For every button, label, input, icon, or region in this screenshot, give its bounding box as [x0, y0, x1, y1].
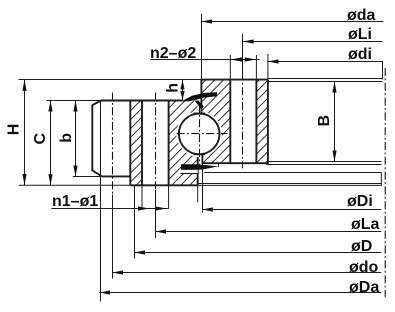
dimension line øLa [156, 231, 382, 233]
svg-text:H: H [6, 124, 23, 136]
inner ring bore surface with chamfers [92, 101, 102, 177]
svg-text:øDa: øDa [349, 279, 379, 296]
dimension line øD [135, 252, 382, 254]
extension line øLa [155, 190, 157, 238]
lower seal groove floor edge [181, 173, 198, 175]
extension line n2 hole left wall [229, 55, 231, 80]
inner ring bottom face extension to H and C dimensions [19, 184, 131, 186]
extension line øD [134, 185, 136, 258]
inner ring step face extension to b dimension [73, 176, 102, 178]
inner ring bottom face [130, 184, 197, 186]
dimension line ø1 with n1-ø1 label underline [51, 208, 168, 210]
svg-text:b: b [58, 133, 75, 143]
extension line øda [201, 14, 203, 80]
svg-text:øDi: øDi [347, 193, 373, 210]
svg-text:ødo: ødo [349, 259, 379, 276]
extension line inner ring outer wall [197, 185, 199, 202]
inner ring top face [101, 100, 183, 102]
outer ring bore edge below ball [201, 153, 203, 163]
dimension line øDi [202, 209, 381, 211]
inner ring top face extension to C and b dimensions [46, 100, 101, 102]
dimension line øLi [243, 41, 382, 43]
extension line ødi [267, 54, 269, 80]
arrowhead ø1 left [138, 206, 149, 210]
bolt hole n1 left wall [141, 101, 143, 186]
bolt hole n1 right wall [168, 101, 170, 186]
arrowhead n2-ø2 right [245, 57, 257, 61]
dimension line C [50, 101, 52, 186]
extension line ø1 left wall [141, 185, 143, 208]
arrowhead C top [48, 101, 52, 112]
outer ring section hatch, raceway block right of ball [201, 80, 230, 163]
outer ring top face [201, 79, 268, 81]
raceway edge tick above ball [194, 112, 206, 114]
svg-text:øD: øD [351, 238, 372, 255]
extension line øDa through inner ring [100, 101, 102, 302]
arrowhead B bottom [332, 151, 336, 162]
arrowhead b bottom [73, 166, 77, 177]
ball vertical centerline [199, 105, 201, 165]
outer ring bore edge above ball [200, 80, 202, 115]
dimension line B [334, 82, 336, 162]
arrowhead h bottom [180, 91, 184, 100]
svg-text:øLi: øLi [348, 26, 372, 43]
dimension line b [75, 101, 77, 177]
extension line øLi [242, 34, 244, 73]
outer ring section hatch, rim right of bolt hole n2 [256, 80, 268, 164]
ball (rolling element) [179, 114, 220, 155]
bottom face edge extension right lower [268, 164, 382, 166]
bearing axis centerline [384, 68, 386, 297]
svg-text:n1–ø1: n1–ø1 [52, 193, 98, 210]
outer ring bottom chamfer [266, 163, 268, 164]
raceway edge tick below ball [194, 154, 206, 156]
inner ring section hatch, raceway block left of ball [169, 101, 198, 186]
arrowhead C bottom [48, 174, 52, 185]
arrowhead H top [22, 80, 26, 91]
dimension line h [182, 80, 184, 100]
top face edge extension right lower [268, 81, 383, 83]
extension line ø1 right wall [168, 185, 170, 208]
svg-text:øda: øda [347, 7, 376, 24]
svg-text:C: C [32, 133, 49, 145]
extension line n2 hole right wall [255, 55, 257, 80]
arrowhead h top [180, 80, 184, 90]
lower seal strip [181, 164, 219, 170]
dimension line n2-ø2 with label underline [150, 59, 259, 61]
svg-text:øLa: øLa [351, 216, 380, 233]
right tick of ødi dimension [382, 62, 384, 80]
svg-text:n2–ø2: n2–ø2 [150, 45, 196, 62]
inner ring lower step face [102, 175, 130, 177]
upper seal lip on ball [195, 101, 204, 110]
lower seal groove clearance [181, 170, 198, 174]
outer ring outside surface [267, 80, 269, 164]
centerline of bolt hole ødo circle [112, 93, 114, 195]
bolt hole n2 left wall [229, 80, 231, 164]
centerline of bolt hole n2-ø2 [242, 73, 244, 169]
dimension line øDa [100, 292, 382, 294]
outer ring recess line below ring [204, 172, 381, 174]
inner ring section hatch, web between bolt hole n1 and counterbore [130, 101, 142, 186]
inner ring bottom edge extension right lower [198, 184, 382, 186]
right tick joining recess extensions [380, 173, 382, 186]
bottom face edge extension right upper [268, 161, 382, 163]
ball horizontal centerline [177, 133, 228, 135]
arrowhead b top [73, 101, 77, 112]
svg-text:ødi: ødi [348, 46, 372, 63]
top face edge extension right upper [268, 78, 383, 80]
dimension line H [24, 80, 26, 186]
bolt hole n2 right wall [255, 80, 257, 164]
seal retainer stub [218, 163, 220, 167]
dimension line ødo [113, 272, 382, 274]
arrowhead ø1 right [155, 206, 166, 210]
inner ring outer wall below ball [197, 157, 199, 185]
upper seal strip [181, 92, 217, 101]
dimension line ødi [268, 61, 383, 63]
inner ring bottom edge extension right upper [198, 183, 382, 185]
arrowhead n2-ø2 left [230, 57, 242, 61]
svg-text:h: h [164, 83, 181, 93]
outer ring bottom face [202, 162, 267, 164]
arrowhead B top [332, 82, 336, 93]
centerline of bolt hole n1-ø1 [155, 93, 157, 191]
extension line øDi [202, 163, 204, 212]
svg-text:B: B [316, 115, 333, 127]
extension line ødo [112, 195, 114, 279]
arrowhead H bottom [22, 174, 26, 185]
inner ring step wall / counterbore wall [129, 101, 131, 186]
dimension line øda [202, 21, 384, 23]
outer ring top face extension to H dimension [19, 79, 202, 81]
